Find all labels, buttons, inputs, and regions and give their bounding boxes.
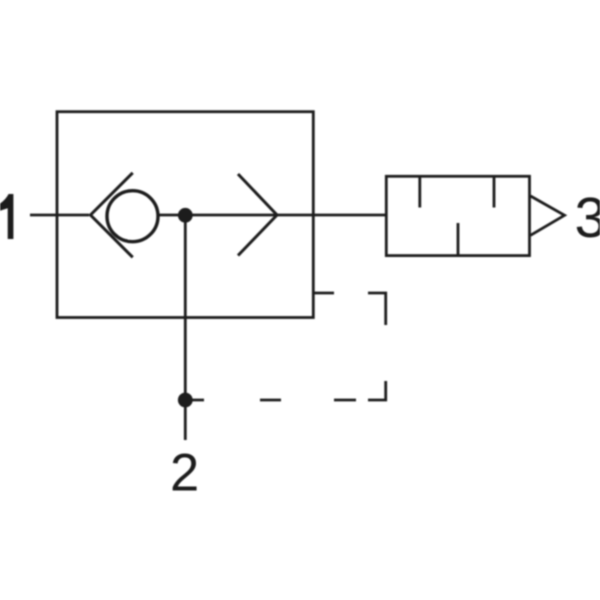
svg-text:3: 3 bbox=[575, 186, 600, 250]
pilot line dash a bbox=[334, 399, 356, 402]
port label 1 bbox=[0, 194, 13, 239]
silencer tick top right bbox=[493, 177, 496, 208]
pilot line stub from box bbox=[314, 292, 334, 295]
pilot line stub to node bbox=[185, 399, 204, 402]
silencer body bbox=[386, 176, 529, 255]
pilot line corner dash top bbox=[368, 293, 386, 325]
node junction J2 bbox=[178, 393, 193, 408]
pilot line dash b bbox=[260, 399, 281, 402]
exhaust triangle port 3 bbox=[531, 196, 565, 235]
svg-text:2: 2 bbox=[170, 444, 199, 503]
silencer tick bottom center bbox=[457, 223, 460, 255]
wire ball to silencer bbox=[159, 214, 387, 217]
wire port 1 inlet bbox=[30, 214, 89, 217]
check valve ball bbox=[107, 191, 158, 242]
node junction J1 bbox=[178, 208, 193, 223]
check valve seat bbox=[91, 173, 133, 257]
pilot line corner dash bottom bbox=[368, 381, 386, 400]
flow arrow bbox=[238, 174, 277, 256]
silencer tick top left bbox=[418, 177, 421, 208]
wire node to port 2 bbox=[184, 215, 187, 440]
valve body box bbox=[57, 112, 313, 318]
